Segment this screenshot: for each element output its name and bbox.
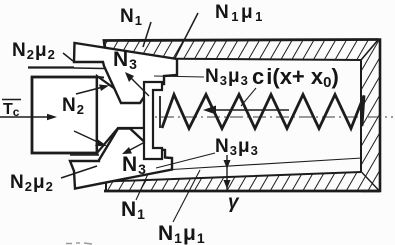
- Tc input arrow: [0, 116, 50, 118]
- housing right wall (hatched): [361, 40, 380, 192]
- svg-text:N3μ3: N3μ3: [205, 66, 249, 88]
- svg-text:N1: N1: [120, 6, 143, 28]
- box top edge stub toward wedge: [97, 76, 104, 79]
- svg-text:γ: γ: [228, 192, 240, 213]
- input box (piston): [32, 77, 97, 153]
- spring seat plate: [144, 82, 162, 159]
- svg-text:N1: N1: [121, 198, 146, 222]
- gamma angle marker: [226, 155, 228, 192]
- svg-text:N2μ2: N2μ2: [10, 172, 54, 194]
- svg-text:ci(x+ x0): ci(x+ x0): [252, 64, 339, 91]
- centerline (dash-dot axis): [0, 116, 393, 118]
- lower wedge tab upper line: [70, 154, 99, 156]
- upper wedge tab lower line: [74, 67, 105, 70]
- svg-text:N2μ2: N2μ2: [12, 40, 56, 62]
- svg-text:N1μ1: N1μ1: [158, 222, 206, 245]
- svg-text:N3μ3: N3μ3: [215, 136, 259, 158]
- housing top band (hatched): [104, 40, 378, 61]
- lower cone surface thin line: [172, 158, 362, 170]
- cut-off caption marks at bottom: [66, 243, 92, 244]
- spring c(x+x0): [162, 95, 364, 129]
- upper wedge ring N3: [74, 43, 177, 103]
- lower wedge ring N3: [70, 129, 172, 189]
- housing bottom band (hatched): [104, 172, 380, 192]
- pusher rod with conical head: [97, 76, 144, 153]
- svg-text:N1μ1: N1μ1: [215, 2, 265, 24]
